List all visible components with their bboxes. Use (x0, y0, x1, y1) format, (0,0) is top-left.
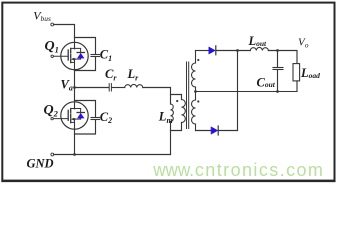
wire (196, 50, 210, 52)
node Va (73, 86, 76, 89)
wire (171, 123, 182, 131)
wire (center tap rail) (196, 91, 298, 93)
polarity dot secondary upper (197, 59, 199, 61)
inductor Lr (125, 84, 143, 87)
wire (219, 130, 238, 132)
wire (237, 51, 239, 131)
wire (143, 88, 171, 105)
wire (171, 95, 182, 100)
capacitor C2 (75, 101, 100, 135)
junction (276, 90, 279, 93)
transistor Q2 (51, 102, 88, 130)
transformer T1 core (187, 62, 189, 129)
wire (268, 51, 297, 64)
svg-text:GND: GND (27, 157, 54, 171)
resistor Load (293, 64, 300, 92)
junction (276, 49, 279, 52)
inductor Lout (250, 47, 268, 50)
wire (196, 130, 212, 132)
junction (73, 153, 76, 156)
transformer T1 secondary (192, 51, 196, 131)
transformer T1 primary (182, 100, 186, 123)
ground (51, 153, 54, 156)
wire (74, 70, 76, 102)
transistor Q1 (51, 42, 88, 70)
wire (216, 50, 250, 52)
node center tap (194, 90, 197, 93)
inductor Lm (171, 104, 174, 122)
svg-text:cntronics.com: cntronics.com (195, 160, 323, 180)
wire (54, 25, 75, 43)
polarity dot primary (176, 100, 178, 102)
wire (bottom rail) (54, 154, 171, 156)
capacitor C1 (75, 38, 100, 71)
wire (112, 87, 125, 89)
wire (74, 129, 76, 154)
svg-text:www.: www. (152, 160, 194, 180)
capacitor Cout (273, 51, 283, 92)
node Vbus (51, 23, 54, 26)
wire (170, 122, 172, 155)
junction (236, 49, 239, 52)
capacitor Cr (109, 84, 111, 91)
polarity dot secondary lower (197, 100, 199, 102)
wire (75, 87, 109, 89)
diode D1 (209, 46, 216, 55)
diode D2 (211, 126, 218, 135)
